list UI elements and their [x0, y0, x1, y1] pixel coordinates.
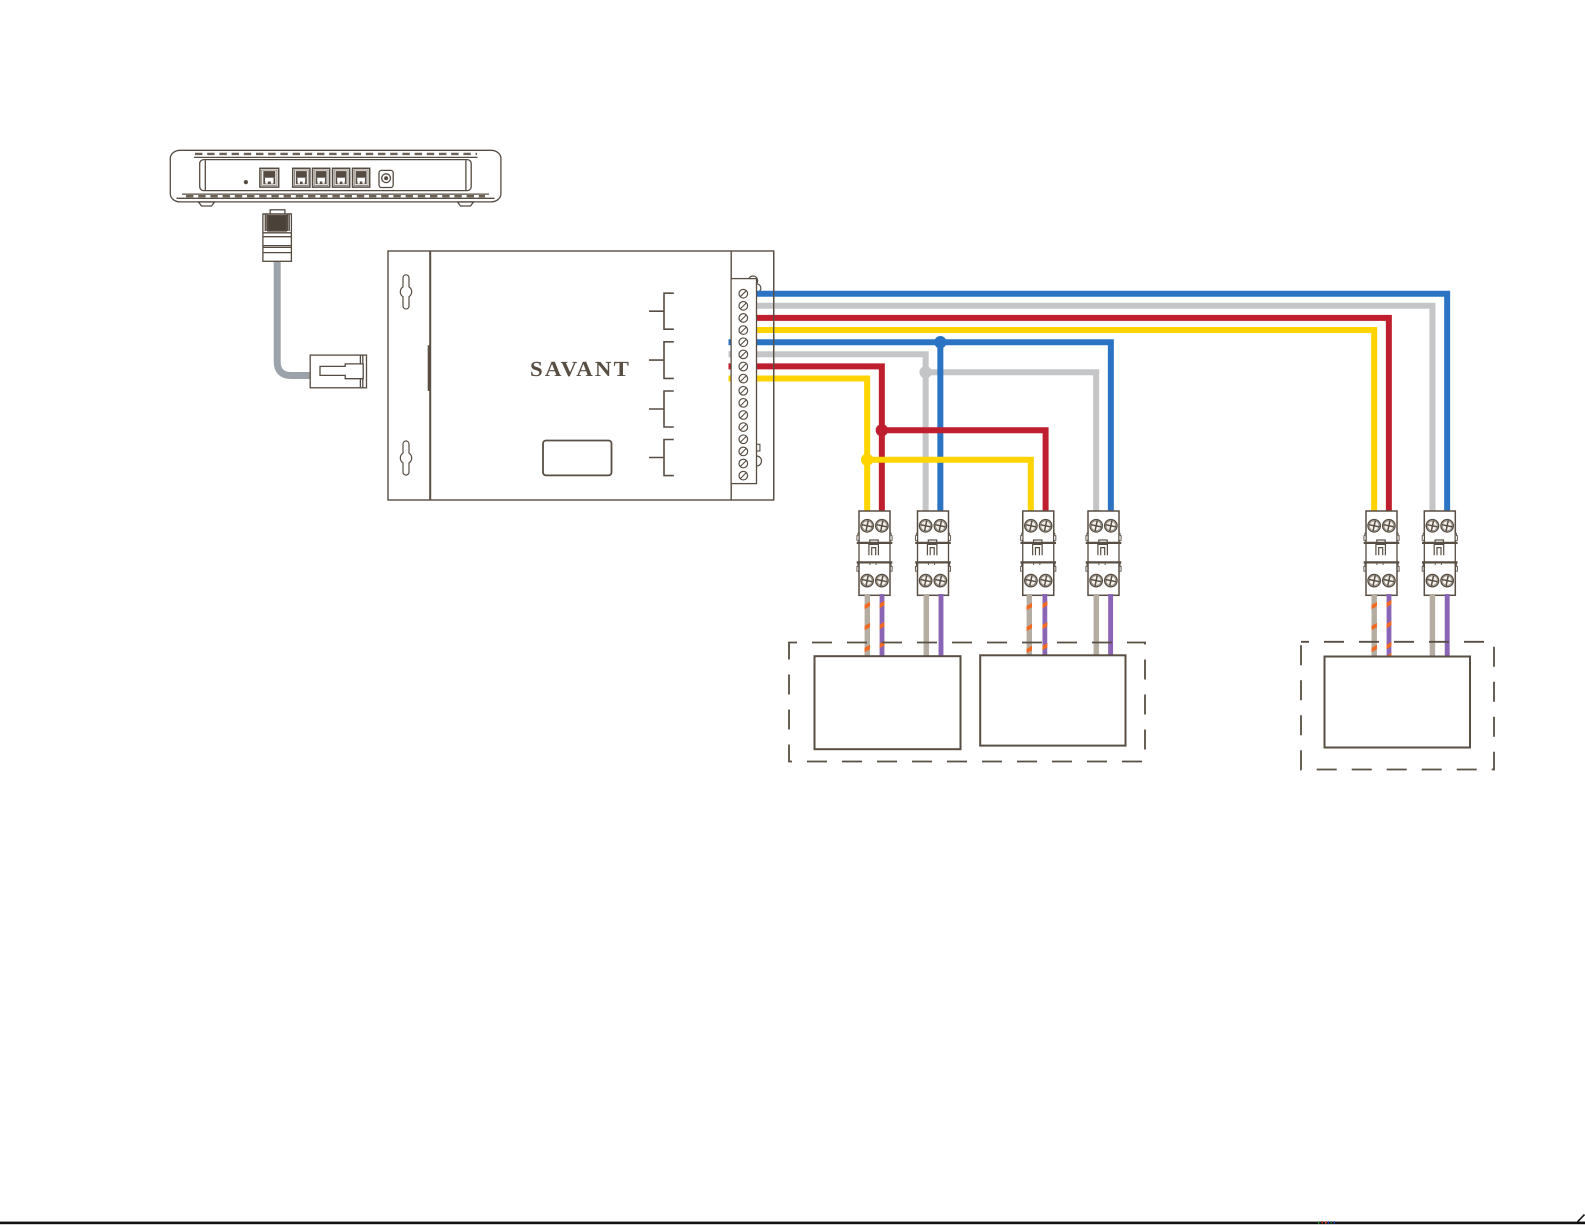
junction dot yellow [861, 454, 873, 466]
router left foot [199, 202, 215, 206]
router right foot [458, 202, 474, 206]
wire blue branch down to connector 2 [937, 342, 943, 514]
page footer rule [0, 1222, 1585, 1225]
wire red: terminal 7 to keypad connectors 1 and 3 [729, 366, 1046, 514]
keyhole mounting slot (top) [400, 275, 411, 309]
keypad box B [980, 655, 1125, 745]
IR blaster bracket 2 [649, 342, 674, 379]
inner partition line [730, 251, 732, 500]
router body outline [170, 150, 501, 202]
footer tiny colored text specks [1318, 1221, 1335, 1223]
SAVANT controller enclosure [388, 251, 774, 500]
router LAN port 4 [333, 168, 350, 187]
router face panel [200, 160, 472, 191]
plain purple cable from connector 4 [1108, 594, 1113, 658]
junction dot blue [934, 336, 946, 348]
terminal block tab (bottom right) [757, 444, 760, 451]
router top vent strip [194, 156, 478, 158]
IR blaster bracket 1 [649, 293, 674, 329]
dashed enclosure (keypad location 3) [1301, 642, 1494, 770]
wire blue: terminal 1 to keypad connector 6 right [745, 294, 1447, 514]
wire yellow: terminal 4 to keypad connector 5 left [745, 330, 1374, 514]
plain gray cable from connector 6 [1430, 594, 1436, 658]
page corner tick [1578, 1215, 1585, 1222]
wire yellow: terminal 8 to keypad connectors 1 and 3 [729, 379, 1031, 515]
junction dot gray [919, 366, 931, 378]
plain gray cable from connector 4 [1094, 594, 1100, 658]
svg-text:SAVANT: SAVANT [530, 357, 631, 381]
terminal block ear (bottom right) [752, 456, 762, 466]
plain purple cable from connector 2 [939, 594, 944, 658]
wire blue: terminal 5 to keypad connectors 2 and 4 [729, 342, 1111, 514]
router DC power jack [379, 170, 393, 187]
plain gray cable from connector 2 [924, 594, 930, 658]
lever connector pair 3 [1020, 511, 1056, 595]
RJ45 plug (upper, at router) [263, 210, 292, 261]
product label rectangle [543, 441, 612, 476]
wire gray: terminal 2 to keypad connector 6 left [745, 306, 1432, 514]
router LAN port 1 [260, 168, 279, 187]
keyhole mounting slot (bottom) [400, 441, 411, 475]
terminal block ear (top right) [752, 284, 761, 293]
dashed enclosure (keypad locations 1-2) [789, 643, 1145, 762]
lever connector pair 6 [1422, 511, 1458, 595]
terminal screws x16 [739, 289, 748, 480]
terminal strip of controller [731, 279, 756, 484]
ethernet cable (gray) from router to controller [277, 259, 312, 376]
controller right edge redrawn over wires [773, 251, 775, 500]
router reset pinhole [244, 180, 248, 184]
lever connector pair 4 [1086, 511, 1122, 595]
IR blaster bracket 3 [649, 391, 674, 427]
keypad box A [815, 656, 961, 749]
lever connector pair 5 [1364, 511, 1400, 595]
router LAN port 3 [313, 168, 330, 187]
router LAN port 5 [353, 168, 370, 187]
lever connector pair 2 [915, 511, 951, 595]
router LAN port 2 [293, 168, 310, 187]
router bottom vent strip [182, 193, 489, 195]
striped cables group (connectors 1, 3, 5) [864, 594, 1393, 659]
plain purple cable from connector 6 [1445, 594, 1450, 658]
junction dot red [876, 424, 888, 436]
wire red branch down to connector 1 [879, 430, 885, 514]
mounting flange fold line [429, 251, 431, 500]
wire red: terminal 3 to keypad connector 5 right [745, 318, 1389, 514]
wire gray branch down to connector 2 [923, 372, 929, 514]
IR blaster bracket 4 [649, 440, 674, 476]
router/switch (network device rear view) [170, 150, 501, 206]
keypad box C [1325, 657, 1471, 748]
lever connector pair 1 [857, 511, 893, 595]
RJ45 plug (lower, at controller, side view) [310, 355, 366, 388]
terminal block mounting screw (top) [748, 276, 757, 285]
wire gray: terminal 6 to keypad connectors 2 and 4 [729, 354, 1097, 514]
wire yellow branch down to connector 1 [864, 460, 870, 514]
